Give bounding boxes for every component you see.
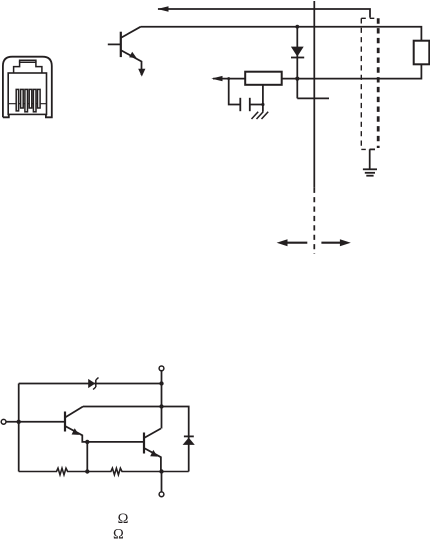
svg-text:Ω: Ω — [113, 526, 124, 539]
svg-text:Ω: Ω — [118, 511, 129, 527]
